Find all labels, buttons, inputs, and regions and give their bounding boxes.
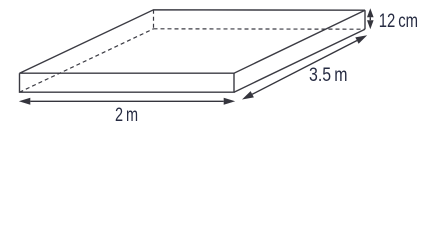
hidden bottom back edge D'-C' (dashed)	[154, 28, 366, 30]
dimension arrow 12 cm (vertical double-headed)	[367, 8, 374, 29]
svg-text:12 cm: 12 cm	[379, 11, 418, 32]
slab top face (solid outline A-B-C-D)	[20, 10, 366, 73]
slab right-edge bottom B'-C'	[234, 29, 365, 92]
slab right vertical edge C-C'	[364, 10, 366, 29]
dimension arrow 2 m (horizontal double-headed)	[19, 98, 235, 105]
hidden bottom-left edge A'-D' (dashed)	[20, 29, 154, 92]
svg-text:3.5 m: 3.5 m	[309, 65, 348, 86]
dimension arrow 3.5 m (oblique double-headed)	[242, 35, 367, 99]
hidden back-left vertical edge D-D' (dashed)	[153, 10, 155, 29]
slab front face (rectangle A-B-B'-A')	[20, 73, 235, 92]
svg-text:2 m: 2 m	[115, 105, 138, 125]
